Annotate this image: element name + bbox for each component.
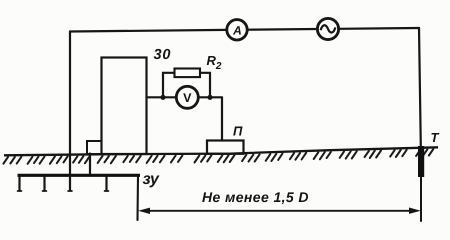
wire: resistor R2 right lead [200, 73, 210, 98]
svg-text:V: V [183, 91, 192, 105]
ground hatching [3, 149, 433, 164]
grounding device bus ЗУ (thick underground conductor) [18, 174, 141, 177]
wire: node line from equipment box to voltmeter branch [147, 96, 223, 98]
svg-text:Не менее 1,5 D: Не менее 1,5 D [202, 189, 309, 205]
junction dot right of voltmeter [207, 95, 212, 100]
wire: between ammeter and AC source [247, 28, 317, 31]
wire: top horizontal bus from left corner to ammeter [70, 30, 227, 32]
svg-text:П: П [233, 124, 243, 139]
equipment box ЗО (tall rectangle) [102, 58, 147, 155]
ЗУ electrode stub 1 [18, 176, 20, 191]
wire: vertical from node down to probe П [221, 97, 223, 140]
resistor R2 [175, 69, 201, 78]
svg-text:зу: зу [143, 171, 161, 188]
probe electrode П (box on ground) [207, 141, 244, 154]
svg-text:T: T [431, 130, 440, 145]
svg-text:R2: R2 [207, 53, 222, 72]
ЗУ electrode stub 3 [69, 176, 71, 191]
wire: left vertical from top corner down through earth to grounding bus [69, 32, 71, 176]
ground surface (earth line) [4, 147, 438, 155]
small foundation box on ground at left of equipment [87, 141, 102, 154]
svg-text:A: A [232, 23, 242, 37]
ammeter A [227, 20, 247, 40]
wire: riser from small box down to grounding bus [89, 154, 91, 176]
dimension arrow (Не менее 1,5D) [138, 208, 421, 215]
voltmeter V [176, 86, 198, 108]
svg-text:30: 30 [154, 47, 172, 63]
wire: thin rod below electrode T [420, 177, 422, 221]
wire: left dimension extension line below grounding bus [136, 176, 139, 221]
wire: from AC source to top-right corner [339, 27, 419, 30]
junction dot left of voltmeter [160, 95, 165, 100]
ЗУ electrode feet [18, 190, 109, 192]
electrode T (thick driven rod) [418, 146, 424, 177]
AC source (sine generator) [317, 18, 338, 39]
wire: resistor R2 left lead [163, 73, 175, 98]
wire: right vertical down to electrode T [419, 28, 421, 147]
ЗУ electrode stub 2 [43, 176, 45, 191]
ЗУ electrode stub 4 [105, 176, 107, 191]
